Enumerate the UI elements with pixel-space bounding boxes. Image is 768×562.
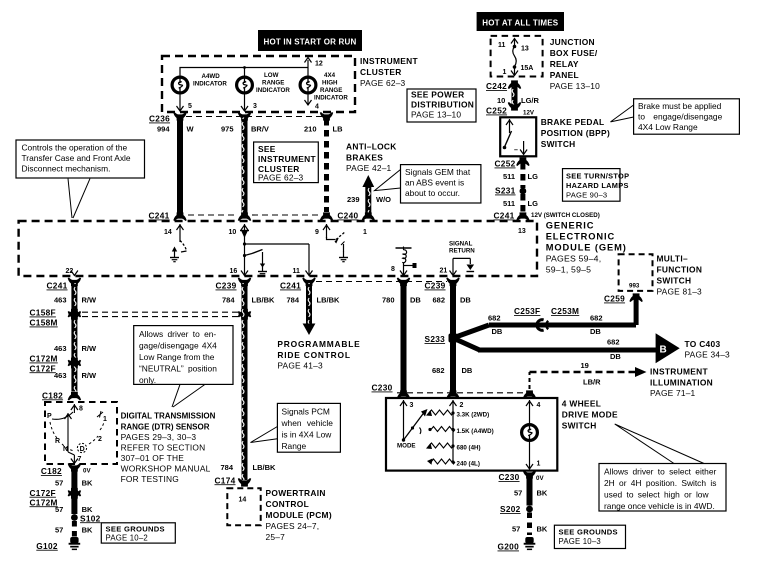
svg-text:511: 511 [503, 172, 515, 181]
svg-text:DB: DB [462, 366, 473, 375]
svg-text:N: N [63, 446, 68, 453]
wire 463 R/W (3) [54, 367, 97, 392]
GEM internal switch at pin10 [243, 250, 267, 276]
mode selector arm [397, 409, 428, 450]
svg-text:RANGE: RANGE [262, 80, 284, 87]
svg-text:INDICATOR: INDICATOR [193, 81, 227, 88]
splice S102 [71, 513, 101, 523]
svg-text:Low Range from the: Low Range from the [139, 352, 215, 362]
wire 10 LG/R [497, 86, 539, 105]
svg-text:B: B [660, 345, 667, 356]
svg-text:993: 993 [629, 283, 640, 290]
svg-text:LG/R: LG/R [521, 96, 539, 105]
svg-text:PAGE 81–3: PAGE 81–3 [657, 287, 703, 297]
svg-text:13: 13 [521, 46, 529, 53]
wire 511 LG lower [503, 194, 538, 212]
svg-text:is in 4X4 Low: is in 4X4 Low [282, 430, 333, 440]
svg-text:MODULE (GEM): MODULE (GEM) [546, 243, 627, 253]
svg-text:3: 3 [253, 103, 257, 110]
connector C252 below BPP [495, 157, 529, 168]
svg-text:57: 57 [514, 488, 522, 497]
ground G200 [498, 537, 536, 552]
note: brake must be applied [611, 99, 740, 134]
svg-text:1.5K (A4WD): 1.5K (A4WD) [457, 428, 494, 435]
svg-text:PROGRAMMABLE: PROGRAMMABLE [277, 339, 360, 349]
svg-text:14: 14 [239, 497, 247, 504]
note: signals GEM ABS [375, 165, 481, 203]
4WD mode switch box [386, 398, 557, 471]
svg-text:Signals GEM that: Signals GEM that [405, 167, 471, 177]
svg-text:57: 57 [55, 526, 63, 535]
svg-text:RELAY: RELAY [550, 59, 579, 69]
branch to C253F/C253M and C259 [453, 299, 639, 338]
resistor bus pin 2 [450, 400, 464, 462]
svg-text:C240: C240 [337, 211, 358, 221]
svg-text:RETURN: RETURN [449, 248, 475, 255]
svg-text:LB: LB [333, 125, 344, 134]
svg-text:8: 8 [391, 266, 395, 273]
svg-text:PAGE 71–1: PAGE 71–1 [650, 388, 696, 398]
svg-text:SWITCH: SWITCH [562, 421, 597, 431]
lamp3 pin 4 wire [305, 93, 320, 111]
programmable ride control label [277, 339, 360, 371]
svg-text:12: 12 [315, 61, 323, 68]
MFS label [657, 254, 703, 297]
lamp A4WD indicator [172, 77, 188, 93]
wire 975 BR/V [221, 118, 269, 213]
C158 row dashed pair [82, 309, 251, 320]
svg-text:16: 16 [230, 268, 238, 275]
svg-text:C158F: C158F [30, 308, 56, 318]
svg-text:682: 682 [488, 314, 501, 323]
wire 784 LB/BK to PCM [221, 283, 276, 480]
svg-text:PAGE 62–3: PAGE 62–3 [360, 78, 406, 88]
svg-text:C242: C242 [486, 81, 507, 91]
svg-text:C252: C252 [486, 106, 507, 116]
connector C230 bottom [499, 471, 545, 483]
lamp1 pin 5 wire [177, 93, 193, 112]
svg-text:BOX FUSE/: BOX FUSE/ [550, 48, 598, 58]
svg-text:SWITCH: SWITCH [657, 276, 692, 286]
svg-text:WORKSHOP MANUAL: WORKSHOP MANUAL [121, 464, 211, 474]
connector C259 [604, 293, 642, 303]
ground G102 [36, 537, 80, 551]
svg-text:RANGE (DTR) SENSOR: RANGE (DTR) SENSOR [121, 423, 210, 432]
connector C239 pin21 bottom [425, 278, 460, 291]
svg-text:25–7: 25–7 [266, 532, 286, 542]
svg-text:0V: 0V [536, 475, 544, 482]
note: see instrument cluster [254, 142, 319, 183]
svg-text:Transfer Case and Front Axle: Transfer Case and Front Axle [22, 153, 131, 163]
svg-text:ILLUMINATION: ILLUMINATION [650, 378, 713, 388]
svg-text:LB/BK: LB/BK [253, 463, 276, 472]
svg-text:S231: S231 [495, 186, 516, 196]
svg-text:SEE TURN/STOP: SEE TURN/STOP [566, 172, 629, 181]
svg-text:994: 994 [157, 125, 170, 134]
svg-text:PAGES 59–4,: PAGES 59–4, [546, 254, 602, 264]
svg-text:MULTI–: MULTI– [657, 254, 688, 264]
svg-text:RANGE: RANGE [320, 87, 342, 94]
svg-text:R/W: R/W [82, 371, 98, 380]
svg-text:2: 2 [460, 402, 464, 409]
svg-text:POSITION (BPP): POSITION (BPP) [541, 128, 610, 138]
svg-text:BK: BK [82, 478, 93, 487]
svg-text:4X4 Low Range: 4X4 Low Range [638, 122, 698, 132]
svg-text:57: 57 [512, 525, 520, 534]
anti-lock brakes label [346, 142, 397, 174]
wire 239 W/O with up arrow [347, 175, 391, 214]
svg-text:784: 784 [221, 463, 234, 472]
connector C239 pin16 bottom [216, 278, 251, 291]
svg-text:784: 784 [222, 296, 235, 305]
svg-text:REFER TO SECTION: REFER TO SECTION [121, 443, 206, 453]
svg-text:PAGE 62–3: PAGE 62–3 [258, 173, 304, 183]
lamp bus wire [180, 60, 308, 77]
svg-text:C252: C252 [495, 159, 516, 169]
svg-text:W: W [187, 125, 195, 134]
svg-text:PAGES 24–7,: PAGES 24–7, [266, 521, 320, 531]
DTR positions P R N D 2 1 [47, 411, 107, 453]
svg-text:7: 7 [78, 456, 82, 463]
svg-text:S202: S202 [500, 504, 521, 514]
note: signals PCM [251, 403, 341, 452]
svg-text:C241: C241 [149, 211, 170, 221]
svg-text:C230: C230 [372, 383, 393, 393]
svg-text:DIGITAL TRANSMISSION: DIGITAL TRANSMISSION [121, 412, 216, 421]
svg-text:682: 682 [607, 338, 620, 347]
title HOT AT ALL TIMES [477, 12, 564, 31]
wire 463 R/W (2) [54, 318, 97, 359]
connector C241 pin13 [494, 211, 600, 221]
pin 9 switch [327, 232, 349, 262]
svg-text:975: 975 [221, 125, 234, 134]
svg-text:PAGE 10–2: PAGE 10–2 [106, 534, 148, 543]
svg-text:DISTRIBUTION: DISTRIBUTION [411, 100, 474, 110]
connector C158F/C158M [30, 308, 81, 328]
multi-function switch box [619, 254, 653, 291]
pin 16 arrow [230, 268, 249, 276]
4WD switch label [562, 399, 618, 431]
B destination triangle [656, 333, 680, 363]
TO C403 label [685, 339, 731, 360]
svg-text:SIGNAL: SIGNAL [449, 241, 473, 248]
wire 511 LG upper [503, 163, 538, 188]
wire 780 DB [382, 283, 421, 395]
svg-text:SEE GROUNDS: SEE GROUNDS [106, 525, 165, 534]
svg-text:HAZARD LAMPS: HAZARD LAMPS [566, 181, 629, 190]
connector C241 pin22 bottom [47, 278, 81, 291]
svg-text:3.3K (2WD): 3.3K (2WD) [457, 412, 490, 419]
svg-text:240 (4L): 240 (4L) [457, 461, 480, 468]
svg-text:LOW: LOW [264, 72, 279, 79]
svg-text:HIGH: HIGH [322, 80, 338, 87]
svg-text:C239: C239 [425, 281, 446, 291]
svg-text:PAGE 13–10: PAGE 13–10 [550, 81, 600, 91]
svg-text:2H or 4H position. Switch is: 2H or 4H position. Switch is [604, 478, 716, 488]
svg-text:BR/V: BR/V [251, 125, 269, 134]
connector C230 row [372, 383, 536, 399]
pin 14 switch [170, 241, 187, 262]
svg-text:DRIVE MODE: DRIVE MODE [562, 410, 618, 420]
svg-text:784: 784 [287, 296, 300, 305]
svg-text:R/W: R/W [82, 344, 98, 353]
svg-text:DB: DB [460, 296, 471, 305]
svg-text:P: P [47, 413, 52, 420]
resistor 1.5K (A4WD) [428, 427, 493, 436]
svg-text:Signals PCM: Signals PCM [282, 407, 330, 417]
svg-text:BRAKES: BRAKES [346, 153, 383, 163]
svg-text:INDICATOR: INDICATOR [314, 95, 348, 102]
svg-text:PANEL: PANEL [550, 70, 579, 80]
BPP switch internals [503, 119, 527, 155]
svg-text:LB/BK: LB/BK [252, 296, 275, 305]
connector C252 [486, 103, 535, 117]
svg-text:JUNCTION: JUNCTION [550, 37, 595, 47]
wire 994 W [157, 118, 195, 213]
connector C240 at GEM top (pins 9,1) [252, 211, 374, 221]
lamp LOW RANGE indicator [237, 77, 253, 93]
wire 682 DB upper [433, 283, 472, 335]
svg-text:307–01 OF THE: 307–01 OF THE [121, 453, 185, 463]
svg-text:only.: only. [139, 375, 156, 385]
svg-text:C174: C174 [215, 475, 236, 485]
svg-text:682: 682 [590, 314, 603, 323]
lamp 4X4 HIGH RANGE indicator [300, 77, 316, 93]
lamp2 pin 3 wire [241, 93, 257, 112]
svg-text:PAGE 34–3: PAGE 34–3 [685, 350, 731, 360]
svg-text:C241: C241 [280, 281, 301, 291]
svg-text:to engage/disengage: to engage/disengage [638, 112, 723, 122]
svg-text:C259: C259 [604, 294, 625, 304]
svg-text:range once vehicle is in 4WD.: range once vehicle is in 4WD. [604, 501, 715, 511]
svg-text:C241: C241 [47, 281, 68, 291]
instrument cluster label [360, 56, 418, 88]
connector C172M/C172F [30, 354, 81, 374]
connector C172F/C172M [30, 488, 81, 508]
svg-text:5: 5 [188, 103, 192, 110]
svg-text:LB/BK: LB/BK [317, 296, 340, 305]
svg-text:1: 1 [537, 461, 541, 468]
svg-text:57: 57 [55, 505, 63, 514]
see power distribution note [407, 89, 476, 122]
svg-text:Range: Range [282, 441, 307, 451]
svg-text:4: 4 [537, 402, 541, 409]
note: see grounds 10-2 [101, 523, 175, 543]
DTR sensor label [121, 412, 216, 485]
svg-text:SWITCH: SWITCH [541, 139, 576, 149]
svg-text:Controls the operation of the: Controls the operation of the [22, 143, 128, 153]
junction box fuse/relay panel [491, 36, 543, 77]
svg-text:Allows driver to en-: Allows driver to en- [139, 329, 216, 339]
svg-text:511: 511 [503, 199, 515, 208]
svg-text:59–1, 59–5: 59–1, 59–5 [546, 265, 591, 275]
svg-text:ELECTRONIC: ELECTRONIC [546, 232, 615, 242]
svg-text:LG: LG [528, 199, 539, 208]
svg-text:SEE: SEE [258, 144, 276, 154]
svg-text:C172M: C172M [30, 497, 58, 507]
resistor 3.3K (2WD) [426, 410, 489, 419]
svg-text:SEE GROUNDS: SEE GROUNDS [559, 528, 618, 537]
resistor 680 (4H) [426, 443, 481, 452]
wire 57 BK (2) [55, 497, 93, 514]
DTR pin 8 [71, 404, 83, 413]
wire 19 LB/R dashed to instrument illumination [530, 361, 647, 389]
svg-text:11: 11 [293, 268, 301, 275]
svg-text:210: 210 [304, 125, 317, 134]
PCM box [227, 488, 260, 525]
svg-text:12V: 12V [523, 110, 535, 117]
pin 21 signal return wire [440, 258, 475, 275]
splice S202 [500, 504, 533, 514]
svg-text:R/W: R/W [82, 296, 98, 305]
svg-text:BRAKE PEDAL: BRAKE PEDAL [541, 117, 605, 127]
svg-text:14: 14 [164, 229, 172, 236]
svg-text:MODULE (PCM): MODULE (PCM) [266, 510, 332, 520]
wire 210 LB [304, 119, 343, 212]
BPP switch box [500, 117, 536, 156]
svg-text:239: 239 [347, 195, 360, 204]
connector C182 top [42, 390, 80, 400]
row link dashes C241-C239 [316, 281, 447, 283]
note: allows driver engage/disengage [134, 326, 233, 407]
svg-text:PAGES 29–3, 30–3: PAGES 29–3, 30–3 [121, 432, 197, 442]
wire 57 BK (1) [514, 476, 548, 506]
wire 463 R/W (1) [54, 283, 97, 310]
DTR pin 7 wire [65, 413, 82, 464]
svg-text:C172F: C172F [30, 488, 56, 498]
svg-text:21: 21 [440, 268, 448, 275]
svg-text:INSTRUMENT: INSTRUMENT [650, 367, 708, 377]
C236 pin connector (210) [321, 113, 333, 121]
wire 57 BK (1) [55, 469, 93, 490]
svg-text:4: 4 [315, 104, 319, 111]
svg-text:“NEUTRAL” position: “NEUTRAL” position [139, 364, 217, 374]
svg-text:2: 2 [98, 436, 102, 443]
svg-text:15A: 15A [521, 65, 534, 72]
see turn/stop hazard note [563, 169, 630, 202]
svg-text:1: 1 [103, 416, 107, 423]
resistor 240 (4L) [427, 459, 480, 468]
splice S233 [425, 334, 458, 345]
svg-text:GENERIC: GENERIC [546, 221, 595, 231]
wire 57 BK dashed to ground [512, 513, 548, 536]
pin 12 arrow [305, 58, 312, 63]
DTR sensor box [45, 402, 117, 464]
svg-text:HOT AT ALL TIMES: HOT AT ALL TIMES [482, 19, 559, 28]
svg-text:TO C403: TO C403 [685, 339, 721, 349]
svg-text:PAGE 10–3: PAGE 10–3 [559, 537, 601, 546]
svg-text:LB/R: LB/R [583, 378, 601, 387]
note: see grounds 10-3 [554, 525, 625, 548]
svg-text:ANTI–LOCK: ANTI–LOCK [346, 142, 397, 152]
svg-text:S102: S102 [80, 513, 101, 523]
signal return label [449, 241, 475, 255]
svg-text:C182: C182 [41, 466, 62, 476]
svg-text:682: 682 [432, 366, 445, 375]
svg-text:C253F: C253F [514, 306, 540, 316]
svg-text:FUNCTION: FUNCTION [657, 265, 703, 275]
svg-text:DB: DB [590, 327, 601, 336]
svg-text:CLUSTER: CLUSTER [360, 67, 402, 77]
svg-text:CONTROL: CONTROL [266, 499, 310, 509]
svg-text:when vehicle: when vehicle [281, 418, 334, 428]
svg-text:G102: G102 [36, 541, 58, 551]
connector C253F/C253M inline [514, 306, 579, 330]
svg-text:4X4: 4X4 [324, 72, 336, 79]
svg-text:C172F: C172F [30, 363, 56, 373]
svg-text:DB: DB [410, 296, 421, 305]
svg-text:10: 10 [229, 229, 237, 236]
svg-text:used to select high or low: used to select high or low [604, 490, 709, 500]
connector at pin 8 wire (780) [398, 278, 410, 286]
mode switch pin 3 [400, 400, 414, 440]
pin 10 [229, 224, 250, 276]
svg-text:HOT IN START OR RUN: HOT IN START OR RUN [264, 38, 357, 47]
svg-text:FOR TESTING: FOR TESTING [121, 474, 179, 484]
svg-text:PAGE 90–3: PAGE 90–3 [566, 191, 607, 200]
svg-text:780: 780 [382, 296, 395, 305]
pin 22 arrow [66, 268, 78, 276]
svg-text:PAGE 41–3: PAGE 41–3 [277, 361, 323, 371]
svg-text:INSTRUMENT: INSTRUMENT [360, 56, 418, 66]
svg-text:about to occur.: about to occur. [405, 188, 460, 198]
connector C236 label [149, 114, 170, 124]
splice S231 [495, 186, 526, 196]
svg-text:3: 3 [410, 402, 414, 409]
svg-text:9: 9 [315, 229, 319, 236]
svg-text:Allows driver to select either: Allows driver to select either [604, 467, 716, 477]
svg-text:RIDE CONTROL: RIDE CONTROL [277, 350, 350, 360]
GEM label [546, 221, 627, 275]
C236 pin connector (975) [239, 113, 251, 121]
svg-text:1: 1 [363, 229, 367, 236]
svg-text:12V (SWITCH CLOSED): 12V (SWITCH CLOSED) [531, 212, 600, 219]
pin 9 [315, 224, 330, 238]
svg-text:DB: DB [610, 352, 621, 361]
svg-text:INDICATOR: INDICATOR [256, 87, 290, 94]
svg-text:LG: LG [528, 172, 539, 181]
GEM module box [19, 221, 537, 276]
svg-text:463: 463 [54, 296, 67, 305]
note: controls the operation [16, 140, 145, 218]
svg-text:Disconnect mechanism.: Disconnect mechanism. [22, 164, 111, 174]
fuse F13 15A [498, 39, 533, 77]
svg-text:4 WHEEL: 4 WHEEL [562, 399, 601, 409]
svg-text:C182: C182 [42, 390, 63, 400]
svg-text:C236: C236 [149, 114, 170, 124]
wire 57 BK dashed to ground [55, 521, 93, 538]
svg-text:–: – [514, 147, 518, 154]
DTR selector arm [52, 412, 73, 419]
svg-text:POWERTRAIN: POWERTRAIN [266, 488, 326, 498]
svg-text:11: 11 [498, 42, 506, 49]
instrument cluster box [162, 56, 355, 112]
pin10-pin11 link wire [243, 242, 313, 275]
title HOT IN START OR RUN [258, 30, 362, 51]
svg-text:13: 13 [518, 228, 526, 235]
svg-text:19: 19 [581, 361, 589, 370]
svg-text:A4WD: A4WD [202, 73, 221, 80]
svg-text:8: 8 [79, 406, 83, 413]
svg-text:463: 463 [54, 371, 67, 380]
svg-text:682: 682 [433, 296, 446, 305]
svg-text:57: 57 [55, 478, 63, 487]
svg-text:C241: C241 [494, 211, 515, 221]
svg-text:G200: G200 [498, 542, 520, 552]
C236 row dashed line [186, 116, 327, 118]
connector C241 pin11 bottom [280, 278, 315, 291]
instrument illumination label [650, 367, 713, 399]
